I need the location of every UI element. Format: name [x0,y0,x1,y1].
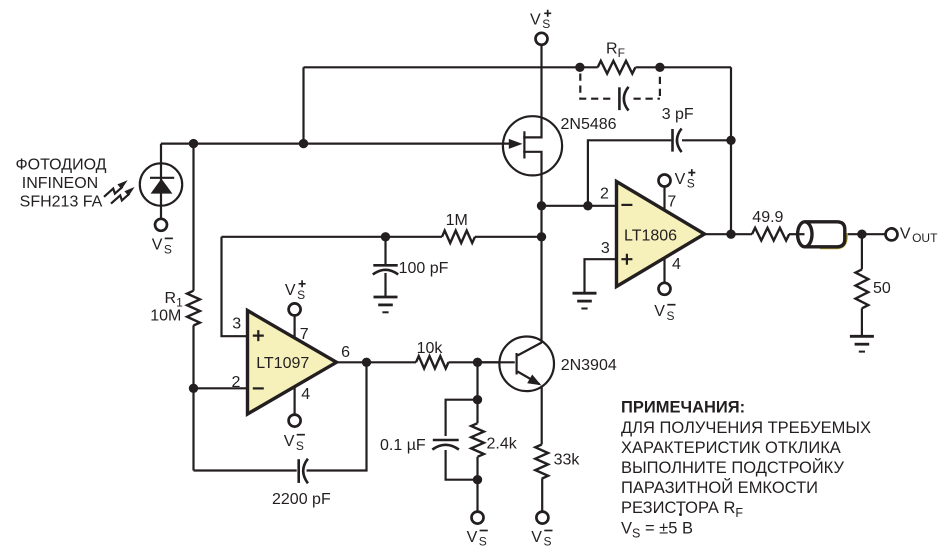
wire Vs+ to JFET drain [523,45,541,138]
wire photodiode/gate horizontal [161,143,511,145]
svg-text:100 pF: 100 pF [399,260,449,277]
terminal Vout [886,228,898,240]
photodiode cathode bar [150,177,174,179]
terminal Vs+ LT1806 [659,175,671,187]
svg-text:ПРИМЕЧАНИЯ:: ПРИМЕЧАНИЯ: [621,399,745,417]
note stray dot [679,513,682,516]
svg-text:ВЫПОЛНИТЕ ПОДСТРОЙКУ: ВЫПОЛНИТЕ ПОДСТРОЙКУ [621,458,844,477]
wire LT1097 -input [194,387,249,389]
wire 10k to base [449,361,501,363]
wire 100pF upper stub [384,237,386,264]
label Vs+ LT1097 [285,280,306,302]
junction 3pF right [726,136,735,145]
wire LT1097 pin4 [294,384,296,415]
svg-text:S: S [542,17,550,31]
capacitor parasitic dashed with RF [580,74,660,111]
wire 50 top stub [861,234,863,269]
wire 100pF lower stub [384,273,386,297]
coax cable end ellipse [798,222,812,247]
terminal Vs- LT1097 [289,415,301,427]
wire base node down [476,362,478,399]
label Vs- LT1806 [654,303,675,323]
ground for LT1806 +input [573,293,597,308]
wire 0.1uF bracket bottom [446,450,478,480]
svg-text:SFH213 FA: SFH213 FA [20,193,103,210]
wire LT1806 -input [542,205,618,207]
svg-text:33k: 33k [554,452,581,469]
svg-text:2N5486: 2N5486 [561,116,617,133]
svg-text:S: S [164,243,172,257]
label Vs- 2.4k [467,529,488,549]
photodiode D1 circle [140,163,182,205]
terminal Vs- 2.4k [472,512,484,524]
ground for 50 [850,336,874,351]
wire 2200pF loop right [307,362,367,470]
wire 1M left [222,236,443,238]
resistor R1 10M vertical [187,291,200,326]
LT1806 minus sign [621,204,632,206]
junction RF right [655,63,664,72]
svg-text:ФОТОДИОД: ФОТОДИОД [15,156,106,173]
wire R1 lower vertical [192,325,194,470]
junction 2.4k top [473,395,482,404]
junction RF left [575,63,584,72]
terminal Vs- LT1806 [659,283,671,295]
svg-text:4: 4 [301,386,310,403]
junction 100pF tap [381,232,390,241]
resistor 33k vertical [535,445,548,479]
svg-text:РЕЗИСТОРА RF: РЕЗИСТОРА RF [621,499,743,520]
junction LT1097 output node [362,358,371,367]
label Vs+ LT1806 [675,169,696,191]
wire top feedback horizontal left [304,66,598,68]
capacitor 100pF [373,265,398,274]
svg-text:V: V [654,303,665,320]
wire LT1806 output [704,233,752,235]
label Vout [900,226,938,246]
junction JFET source node [537,201,546,210]
label Vs- photodiode [152,237,173,257]
svg-text:S: S [479,535,487,549]
LT1097 minus sign [253,387,264,389]
wire 3pF right [682,139,731,141]
resistor RF [598,61,636,74]
wire LT1806 +input to ground [585,259,618,293]
svg-text:6: 6 [341,344,350,361]
BJT collector diagonal [518,343,542,356]
svg-text:S: S [667,309,675,323]
label Vs- LT1097 [284,433,305,453]
junction LT1806 output node [726,230,735,239]
transistor Q1 2N5486 JFET circle [503,116,562,175]
terminal Vs+ top [536,33,548,45]
wire LT1097 output [335,361,416,363]
junction BJT base node [473,358,482,367]
wire 50 bottom stub [861,308,863,336]
svg-text:3: 3 [601,240,610,257]
svg-text:49.9: 49.9 [752,209,783,226]
JFET channel bar [523,131,525,158]
svg-text:V: V [531,529,542,546]
wire coax to Vout [844,233,886,235]
wire 49.9 to coax [789,233,804,235]
svg-text:ХАРАКТЕРИСТИК ОТКЛИКА: ХАРАКТЕРИСТИК ОТКЛИКА [621,439,841,457]
svg-text:OUT: OUT [912,231,938,245]
wire LT1806 pin4 [663,258,665,283]
svg-text:ПАРАЗИТНОЙ ЕМКОСТИ: ПАРАЗИТНОЙ ЕМКОСТИ [621,478,818,497]
svg-text:4: 4 [672,256,681,273]
wire LT1097 pin7 [294,315,296,338]
junction photodiode/R1 [189,139,198,148]
photodiode light arrow upper [104,180,128,197]
svg-text:50: 50 [873,280,891,297]
label Vs+ top [530,10,551,31]
svg-text:LT1097: LT1097 [256,355,309,372]
svg-text:S: S [296,439,304,453]
wire top feedback horizontal right [636,66,732,68]
coax cable body [805,222,845,247]
svg-text:LT1806: LT1806 [624,227,677,244]
junction 1M right [537,232,546,241]
photodiode light arrow lower [111,187,135,204]
wire R1 upper vertical [192,144,194,291]
BJT base bar [515,353,517,375]
svg-text:2200 pF: 2200 pF [272,491,331,508]
op-amp U1 LT1097 [248,311,337,415]
LT1806 plus sign [621,254,632,265]
svg-text:2.4k: 2.4k [487,435,518,452]
JFET gate arrowhead [509,139,523,149]
svg-text:10k: 10k [417,340,444,357]
terminal Vs+ LT1097 [289,303,301,315]
svg-text:1M: 1M [446,212,468,229]
wire BJT emitter down [541,386,543,445]
LT1097 plus sign [253,330,264,341]
wire 2.4k bottom stub [476,457,478,480]
wire 2200pF loop left [194,469,297,471]
label Vs- 33k [531,529,552,549]
svg-text:V: V [284,433,295,450]
svg-text:V: V [675,171,686,188]
svg-text:S: S [297,288,305,302]
svg-text:V: V [152,237,163,254]
wire 2.4k top stub [476,400,478,424]
junction feedback tap [299,139,308,148]
wire 0.1uF bracket top [446,400,478,436]
capacitor 2200pF [299,459,308,484]
coax cable outline shadow [820,233,847,248]
svg-text:S: S [544,535,552,549]
wire 3pF branch [588,140,671,206]
terminal Vs- 33k [536,512,548,524]
svg-text:10M: 10M [150,308,181,325]
wire JFET source to BJT collector [523,152,541,343]
svg-text:2N3904: 2N3904 [561,357,617,374]
BJT base wire [478,361,515,363]
transistor Q2 2N3904 circle [499,337,554,392]
capacitor 0.1uF [432,440,459,450]
resistor 2.4k vertical [471,423,484,457]
junction LT1097 -input node [189,384,198,393]
svg-text:V: V [467,529,478,546]
junction Vout 50ohm [857,230,866,239]
resistor 50 vertical [856,269,869,308]
photodiode anode triangle [151,179,173,194]
wire LT1806 pin7 [663,187,665,211]
op-amp U2 LT1806 [617,182,705,287]
svg-text:2: 2 [232,374,241,391]
svg-text:VS = ±5 В: VS = ±5 В [621,519,693,540]
svg-text:INFINEON: INFINEON [22,175,98,192]
svg-text:0.1 µF: 0.1 µF [380,437,426,454]
svg-text:3: 3 [232,316,241,333]
svg-text:7: 7 [300,326,309,343]
svg-text:7: 7 [667,194,676,211]
wire 33k to Vs- terminal [541,479,543,512]
ground for 100pF [374,297,398,312]
svg-text:S: S [687,177,695,191]
wire feedback tap vertical [302,67,304,143]
junction 3pF branch [583,201,592,210]
terminal Vs- photodiode [155,219,167,231]
wire 2.4k to Vs- terminal [476,480,478,512]
svg-text:V: V [285,282,296,299]
wire photodiode through [160,144,162,219]
svg-text:3 pF: 3 pF [662,106,694,123]
resistor 49.9 [752,228,789,241]
resistor 1M [442,231,475,243]
svg-text:V: V [530,11,541,28]
svg-text:ДЛЯ ПОЛУЧЕНИЯ ТРЕБУЕМЫХ: ДЛЯ ПОЛУЧЕНИЯ ТРЕБУЕМЫХ [621,419,871,437]
BJT emitter diagonal [518,372,540,385]
svg-text:V: V [900,226,911,243]
wire feedback right vertical [730,67,732,234]
capacitor 3pF [673,129,682,153]
wire LT1097 +input feed [222,237,249,336]
svg-text:2: 2 [600,185,609,202]
wire 1M right [475,236,542,238]
coax inner wire stub [796,233,805,235]
BJT emitter arrowhead [527,375,541,386]
resistor 10k [416,356,448,368]
junction 2.4k bottom [473,475,482,484]
